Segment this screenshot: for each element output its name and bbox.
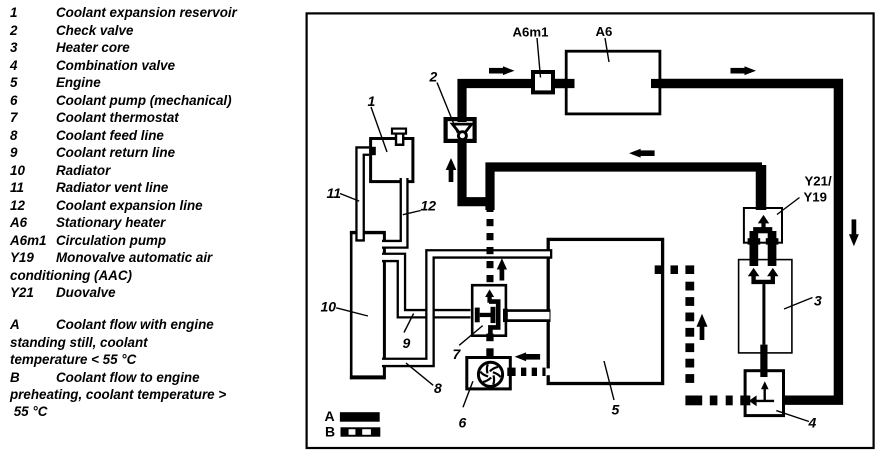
- svg-text:4: 4: [808, 415, 817, 431]
- svg-text:1: 1: [368, 93, 376, 109]
- svg-text:Y21/: Y21/: [805, 174, 832, 189]
- svg-text:A6m1: A6m1: [513, 25, 549, 40]
- svg-text:Y19: Y19: [804, 190, 827, 205]
- svg-text:3: 3: [814, 293, 822, 309]
- svg-text:A6: A6: [596, 24, 613, 39]
- svg-text:2: 2: [429, 69, 438, 85]
- svg-text:9: 9: [403, 335, 411, 351]
- svg-text:7: 7: [453, 346, 462, 362]
- svg-text:10: 10: [321, 299, 337, 315]
- svg-text:A: A: [325, 408, 335, 424]
- svg-text:8: 8: [434, 380, 442, 396]
- svg-text:11: 11: [327, 185, 342, 201]
- svg-text:12: 12: [421, 198, 437, 214]
- svg-text:5: 5: [612, 402, 620, 418]
- svg-text:6: 6: [459, 415, 467, 431]
- svg-text:B: B: [325, 424, 335, 440]
